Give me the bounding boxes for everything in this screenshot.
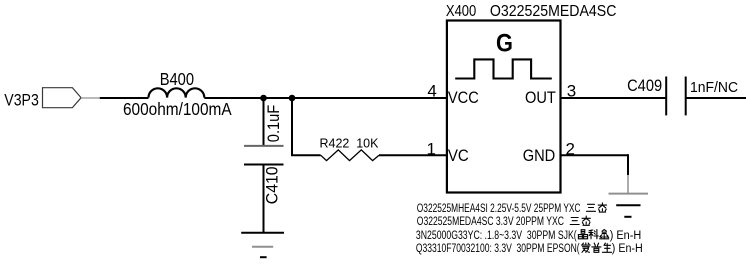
svg-text:V3P3: V3P3 <box>4 91 38 109</box>
svg-text:O322525MEDA4SC 3.3V 20PPM YXC: O322525MEDA4SC 3.3V 20PPM YXC <box>417 216 564 229</box>
svg-text:600ohm/100mA: 600ohm/100mA <box>123 100 232 119</box>
svg-text:VC: VC <box>448 146 469 165</box>
svg-text:O322525MHEA4SI 2.25V-5.5V 25PP: O322525MHEA4SI 2.25V-5.5V 25PPM YXC <box>417 203 581 216</box>
svg-text:X400: X400 <box>446 3 476 20</box>
svg-text:VCC: VCC <box>448 89 479 107</box>
svg-text:0.1uF: 0.1uF <box>265 104 283 142</box>
svg-text:) En-H: ) En-H <box>612 242 643 255</box>
svg-text:) En-H: ) En-H <box>610 229 642 242</box>
svg-text:2: 2 <box>566 140 575 159</box>
svg-text:C409: C409 <box>627 77 662 95</box>
svg-text:C410: C410 <box>263 166 282 204</box>
svg-text:G: G <box>496 29 513 57</box>
svg-text:1nF/NC: 1nF/NC <box>690 80 738 97</box>
svg-text:3N25000G33YC: .1.8~3.3V 30PPM: 3N25000G33YC: .1.8~3.3V 30PPM SJK( <box>416 230 577 243</box>
svg-text:1: 1 <box>427 140 436 159</box>
svg-text:Q33310F70032100: 3.3V 30PPM E: Q33310F70032100: 3.3V 30PPM EPSON( <box>416 243 580 256</box>
svg-text:GND: GND <box>523 147 556 165</box>
svg-text:B400: B400 <box>160 70 194 89</box>
svg-text:OUT: OUT <box>525 89 556 107</box>
svg-text:3: 3 <box>567 82 576 101</box>
svg-text:R422 10K: R422 10K <box>320 135 379 150</box>
svg-text:O322525MEDA4SC: O322525MEDA4SC <box>490 4 617 21</box>
svg-text:4: 4 <box>427 82 436 101</box>
